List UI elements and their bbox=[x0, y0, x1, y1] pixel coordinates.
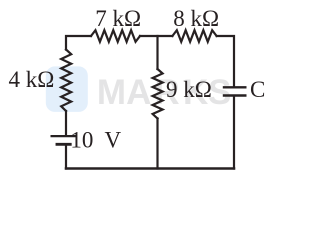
wire: R3 to bottom rail bbox=[156, 119, 158, 169]
wire: R1 to middle junction bbox=[140, 35, 172, 37]
wire: middle junction down to R3 bbox=[156, 36, 158, 69]
svg-text:C: C bbox=[250, 77, 265, 102]
svg-text:10 V: 10 V bbox=[70, 127, 121, 152]
wire: bottom rail bbox=[66, 167, 234, 170]
wire: capacitor to bottom-right corner bbox=[233, 97, 235, 169]
capacitor C bottom plate bbox=[224, 94, 245, 96]
svg-text:4 kΩ: 4 kΩ bbox=[9, 67, 55, 92]
wire: top-left corner (left node to R1) bbox=[66, 36, 91, 50]
resistor R3 9 kOhm (vertical, middle) bbox=[153, 69, 163, 119]
resistor R4 4 kOhm (vertical, left) bbox=[61, 50, 71, 112]
resistor R2 8 kOhm (horizontal, top-right) bbox=[172, 30, 216, 42]
wire: R2 to top-right corner bbox=[217, 36, 234, 86]
watermark icon (light blue rounded square) bbox=[46, 66, 88, 112]
resistor R1 7 kOhm (horizontal, top-left) bbox=[91, 30, 140, 42]
wire: R4 to battery bbox=[65, 111, 67, 135]
svg-text:7 kΩ: 7 kΩ bbox=[95, 6, 141, 31]
battery V1 10 V positive plate (long) bbox=[52, 135, 76, 137]
wire: battery to bottom-left corner bbox=[65, 144, 67, 168]
svg-text:8 kΩ: 8 kΩ bbox=[173, 6, 219, 31]
svg-text:9 kΩ: 9 kΩ bbox=[166, 77, 212, 102]
capacitor C top plate bbox=[224, 86, 245, 88]
battery V1 10 V negative plate (short thick) bbox=[57, 143, 70, 146]
